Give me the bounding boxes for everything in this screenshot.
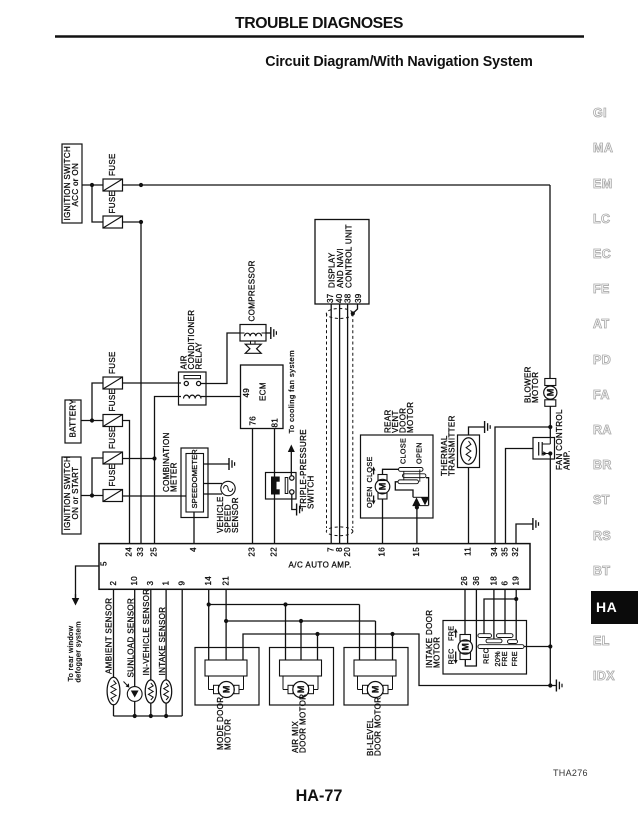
- svg-text:M: M: [461, 643, 471, 651]
- section tab PD: [593, 354, 611, 367]
- ground: speedometer: [229, 458, 235, 470]
- svg-text:25: 25: [150, 547, 159, 557]
- wire: display pin 38 to A/C amp pin 20: [347, 304, 349, 544]
- control unit box: ECM: [241, 365, 284, 429]
- wire: fuse F6 output to speedometer: [123, 495, 187, 497]
- pin 6 label (A/C auto amp bottom): [500, 581, 509, 586]
- wire: ground rail branch to bi-level motor: [392, 634, 394, 660]
- motor box: BI-LEVEL DOOR MOTOR: [344, 648, 408, 757]
- wire: fuse F4 output down to A/C amp pin 24: [123, 421, 130, 544]
- net label: To rear window defogger system: [66, 621, 83, 682]
- pin 7 label (A/C auto amp top): [326, 547, 335, 552]
- svg-text:RELAY: RELAY: [195, 342, 204, 370]
- ground: triple-pressure switch: [297, 504, 303, 516]
- wire: fuse F3 output to air conditioner relay contact: [123, 382, 182, 384]
- wire: riser to A/C amp pin 25: [154, 459, 156, 544]
- junction node fuse F2: [139, 220, 143, 224]
- wire: rear vent motor to position switch: [383, 469, 399, 474]
- wire: ECM pin 81 to A/C amp pin 22 through pressure switch: [274, 429, 276, 544]
- wire: A/C amp pin 6 to intake switch: [504, 589, 506, 634]
- wire: pin 19 branch to REC contact: [484, 599, 516, 634]
- pin 25 label (A/C auto amp top): [150, 547, 159, 557]
- wire: A/C amp pin 32 to ground: [516, 524, 533, 543]
- wire: ambient sensor to sensor common: [113, 705, 115, 716]
- diode pair (rear vent motor): [412, 497, 429, 505]
- wire: A/C amp pin 3 to in-vehicle sensor: [150, 589, 152, 680]
- wire: display pin 39 to cable shield: [353, 304, 358, 314]
- junction node main riser / ground line: [548, 683, 552, 687]
- ground: compressor: [271, 327, 277, 339]
- wire: sunload sensor to sensor common: [134, 701, 136, 716]
- svg-text:ACC or ON: ACC or ON: [71, 163, 80, 207]
- svg-text:16: 16: [378, 547, 387, 557]
- pin 18 label (A/C auto amp bottom): [489, 576, 498, 586]
- svg-text:34: 34: [490, 547, 499, 557]
- pin 4 label (A/C auto amp top): [189, 547, 198, 552]
- page header rule: [55, 35, 584, 37]
- svg-text:35: 35: [501, 547, 510, 557]
- svg-text:FUSE: FUSE: [108, 191, 117, 214]
- svg-text:2: 2: [109, 581, 118, 586]
- wire: speedometer to A/C amp pin 4: [193, 512, 195, 543]
- wire: intake sensor to sensor common: [165, 703, 167, 716]
- svg-text:DOOR MOTOR: DOOR MOTOR: [299, 694, 308, 753]
- compressor: magnet clutch coil: [240, 260, 266, 341]
- svg-text:11: 11: [464, 547, 473, 556]
- svg-text:33: 33: [136, 547, 145, 557]
- control unit box: DISPLAY AND NAVI CONTROL UNIT: [315, 220, 369, 305]
- svg-text:M: M: [222, 686, 232, 694]
- net label: To cooling fan system: [287, 350, 296, 434]
- pin 11 label (A/C auto amp top): [464, 547, 473, 556]
- wire: door motor ground rail: [243, 634, 556, 686]
- svg-text:TRANSMITTER: TRANSMITTER: [448, 415, 457, 476]
- pin 33 label (A/C auto amp top): [136, 547, 145, 557]
- svg-text:26: 26: [460, 576, 469, 586]
- wire: relay contact output to compressor: [201, 333, 240, 384]
- junction nodes on sensor common: [133, 714, 169, 718]
- section tab HA (active): [591, 591, 638, 624]
- svg-text:10: 10: [130, 576, 139, 586]
- svg-text:15: 15: [412, 547, 421, 557]
- wire: pressure switch to cooling fan arrow: [290, 454, 292, 477]
- wire: ACC branch down to second fuse: [92, 185, 103, 222]
- wire: up to air conditioner relay coil: [155, 397, 182, 459]
- section tab EL: [593, 635, 610, 648]
- junction node at ON-START fuse split: [90, 493, 94, 497]
- amplifier box: FAN CONTROL AMP.: [533, 409, 572, 470]
- pin 32 label (A/C auto amp top): [511, 547, 520, 557]
- wire: blower motor feed riser: [549, 185, 551, 379]
- section tab LC: [593, 213, 610, 226]
- pin 36 label (A/C auto amp bottom): [472, 576, 481, 586]
- svg-text:9: 9: [178, 581, 187, 586]
- svg-text:DOOR MOTOR: DOOR MOTOR: [374, 697, 383, 756]
- svg-text:SUNLOAD SENSOR: SUNLOAD SENSOR: [126, 598, 135, 678]
- junction node pin 19 branch: [514, 597, 518, 601]
- pin 35 label (A/C auto amp top): [501, 547, 510, 557]
- svg-text:CLOSE: CLOSE: [399, 438, 408, 464]
- page number HA-77: [0, 787, 638, 806]
- svg-text:IN-VEHICLE SENSOR: IN-VEHICLE SENSOR: [142, 589, 151, 676]
- wire: ECM pin 76 to A/C amp pin 23: [252, 429, 254, 544]
- svg-text:39: 39: [354, 293, 363, 303]
- fuse F6 (meter feed): [103, 464, 123, 502]
- wire: rail branch to air mix motor: [285, 605, 287, 661]
- compressor clutch pulley symbol: [245, 341, 261, 353]
- svg-text:21: 21: [222, 576, 231, 586]
- sensor: AMBIENT SENSOR: [105, 598, 120, 705]
- motor box: INTAKE DOOR MOTOR: [425, 610, 526, 674]
- pin 22 label (A/C auto amp top): [270, 547, 279, 557]
- svg-text:37: 37: [326, 293, 335, 303]
- intake door motor M with REC/FRE arrows: [447, 626, 473, 665]
- svg-text:REC: REC: [482, 648, 491, 664]
- pin 15 label (A/C auto amp top): [412, 547, 421, 557]
- junction node blower/pin34: [548, 425, 552, 429]
- wire: display pin 40 to A/C amp pin 8: [339, 304, 341, 544]
- wire: pressure switch to ground: [292, 494, 297, 509]
- pin 5 label: [99, 561, 108, 566]
- figure number THA276: [553, 768, 588, 778]
- svg-text:defogger system: defogger system: [74, 621, 83, 682]
- title: TROUBLE DIAGNOSES: [0, 15, 638, 33]
- ground: A/C amp pin 32: [533, 518, 539, 530]
- section tab MA: [593, 142, 613, 155]
- shield: dashed screen around navi harness: [326, 309, 353, 536]
- svg-text:FUSE: FUSE: [108, 426, 117, 449]
- svg-text:MOTOR: MOTOR: [531, 372, 540, 403]
- label OPEN CLOSE with arrows (rear vent): [365, 456, 375, 508]
- svg-text:M: M: [378, 483, 388, 491]
- svg-text:METER: METER: [170, 462, 179, 492]
- svg-text:76: 76: [248, 416, 257, 426]
- svg-text:FRE: FRE: [447, 626, 456, 641]
- svg-text:FUSE: FUSE: [108, 389, 117, 412]
- sensor box: THERMAL TRANSMITTER: [440, 415, 479, 476]
- section tab BT: [593, 565, 610, 578]
- ground: thermal transmitter: [485, 421, 491, 433]
- wire: sensor common return line: [114, 715, 183, 717]
- sensor: VEHICLE SPEED SENSOR: [216, 481, 240, 533]
- svg-text:OPEN: OPEN: [415, 442, 424, 464]
- wire: thermal transmitter to ground: [469, 427, 485, 435]
- wire: fan control amp down to main ground line: [549, 459, 551, 686]
- fuse F1 (ACC feed): [103, 153, 123, 191]
- svg-text:SENSOR: SENSOR: [231, 497, 240, 533]
- svg-text:4: 4: [189, 547, 198, 552]
- wire: fuse F2 output: [123, 221, 142, 223]
- motor box: REAR VENT DOOR MOTOR: [361, 402, 434, 518]
- svg-text:38: 38: [344, 293, 353, 303]
- control unit box: A/C AUTO AMP.: [99, 544, 530, 590]
- wire: ground rail branch to air mix motor: [317, 634, 319, 660]
- section tab BR: [593, 459, 612, 472]
- svg-text:FRE: FRE: [500, 651, 509, 666]
- intake position switch contacts: [478, 634, 524, 667]
- svg-text:23: 23: [248, 547, 257, 557]
- svg-text:5: 5: [99, 561, 108, 566]
- wire: A/C amp pin 35 to fan control amp gate: [506, 449, 534, 544]
- wire: relay coil to ECM pin 49: [201, 396, 241, 398]
- power source box: IGNITION SWITCH ACC or ON: [62, 144, 82, 223]
- pin 8 label (A/C auto amp top): [335, 547, 344, 552]
- wire: A/C amp pin 34 to blower motor minus: [495, 427, 549, 543]
- pin 26 label (A/C auto amp bottom): [460, 576, 469, 586]
- rear vent position switch contacts: [398, 438, 426, 484]
- wire: diodes to A/C amp pin 15: [416, 505, 418, 543]
- wire: rail branch to air mix motor (21): [300, 621, 302, 660]
- wire: speedometer to ground: [204, 463, 229, 465]
- wire: intake motor return to A/C amp pin 36: [465, 589, 476, 666]
- junction nodes on pin 21 rail: [224, 619, 303, 623]
- svg-text:3: 3: [146, 581, 155, 586]
- fuse F2 (ACC feed 2): [103, 191, 123, 228]
- svg-text:49: 49: [242, 388, 251, 398]
- wire: A/C amp pin 21 rail to door motors: [226, 589, 375, 660]
- arrow to cooling fan system: [288, 445, 295, 454]
- wire: fuse F1 output to blower motor feed (top horizontal): [123, 184, 551, 186]
- svg-text:SPEEDOMETER: SPEEDOMETER: [190, 449, 199, 509]
- wire: A/C amp pin 2 to ambient sensor: [113, 589, 115, 678]
- wire: A/C amp pin 10 to sunload sensor: [134, 589, 136, 687]
- pin 34 label (A/C auto amp top): [490, 547, 499, 557]
- section tab RA: [593, 424, 612, 437]
- power source box: BATTERY: [65, 399, 81, 443]
- switch box: TRIPLE-PRESSURE SWITCH: [266, 429, 316, 509]
- junction node fuse F1 / pin 33 riser: [139, 183, 143, 187]
- svg-text:COMPRESSOR: COMPRESSOR: [247, 260, 256, 321]
- svg-text:18: 18: [489, 576, 498, 586]
- svg-text:OPEN: OPEN: [365, 486, 374, 508]
- wire: A/C amp pin 14 rail to door motors: [209, 589, 360, 660]
- motor box: AIR MIX DOOR MOTOR: [270, 648, 334, 754]
- pin 16 label (A/C auto amp top): [378, 547, 387, 557]
- fuse F3 (battery feed to A/C relay): [103, 351, 123, 389]
- svg-text:19: 19: [512, 576, 521, 586]
- relay box: AIR CONDITIONER RELAY: [179, 310, 207, 405]
- pin 1 label (A/C auto amp bottom): [162, 581, 171, 586]
- section tab FA: [593, 389, 610, 402]
- section tab RS: [593, 530, 611, 543]
- pin 21 label (A/C auto amp bottom): [222, 576, 231, 586]
- svg-text:A/C AUTO AMP.: A/C AUTO AMP.: [289, 561, 352, 570]
- junction node diode output: [415, 505, 419, 509]
- section tab FE: [593, 283, 610, 296]
- junction node fan amp source: [548, 451, 552, 455]
- wire: ACC switch to fuses: [82, 184, 103, 186]
- svg-text:MOTOR: MOTOR: [406, 402, 415, 433]
- svg-text:INTAKE SENSOR: INTAKE SENSOR: [158, 607, 167, 676]
- wire: intake switch common to main riser: [524, 646, 550, 648]
- svg-text:81: 81: [270, 418, 279, 428]
- pin 24 label (A/C auto amp top): [125, 547, 134, 557]
- wire: A/C amp pin 5 to rear window defogger system: [76, 566, 100, 599]
- wire: riser to A/C amp pin 33: [140, 222, 142, 543]
- svg-text:FUSE: FUSE: [108, 351, 117, 374]
- wire: battery branch up to fuse F3: [92, 383, 103, 421]
- sensor: SUNLOAD SENSOR (photo diode): [124, 598, 143, 701]
- wire: riser segments through fan control amp: [549, 438, 551, 460]
- wire: fuse F5 output: [123, 458, 155, 460]
- pin 9 label (A/C auto amp bottom): [178, 581, 187, 586]
- motor box: MODE DOOR MOTOR: [195, 648, 259, 751]
- svg-text:ECM: ECM: [259, 382, 268, 401]
- wire: compressor to ground stub: [266, 332, 271, 334]
- wire: blower motor to fan control amp: [549, 406, 551, 437]
- svg-text:MOTOR: MOTOR: [224, 719, 233, 750]
- svg-text:1: 1: [162, 581, 171, 586]
- section tab AT: [593, 318, 610, 331]
- blower motor M: [524, 366, 557, 406]
- meter box: COMBINATION METER with SPEEDOMETER: [162, 432, 208, 517]
- junction node main riser / intake switch: [548, 644, 552, 648]
- junction nodes on pin 14 rail: [207, 602, 288, 606]
- rear vent motor M: [375, 475, 390, 500]
- svg-text:20: 20: [343, 547, 352, 557]
- wire: A/C amp pin 18 to intake switch: [493, 589, 495, 639]
- wire: A/C amp pin 26 to intake motor: [464, 589, 466, 635]
- svg-text:FRE: FRE: [510, 651, 519, 666]
- junction node at ACC fuse split: [90, 183, 94, 187]
- wire: display pin 37 to A/C amp pin 7: [330, 304, 332, 544]
- pin 3 label (A/C auto amp bottom): [146, 581, 155, 586]
- section tab EC: [593, 248, 611, 261]
- wire: speedometer to vehicle speed sensor: [204, 484, 223, 495]
- wire: in-vehicle sensor to sensor common: [150, 703, 152, 716]
- svg-text:FUSE: FUSE: [108, 153, 117, 176]
- fuse F4 (battery feed to pin 24): [103, 389, 123, 427]
- svg-text:6: 6: [500, 581, 509, 586]
- section tab EM: [593, 178, 613, 191]
- sensor: INTAKE SENSOR: [158, 607, 172, 703]
- fuse F5 (ignition feed): [103, 426, 123, 464]
- junction node at battery fuse split: [90, 418, 94, 422]
- svg-text:ON or START: ON or START: [71, 467, 80, 520]
- svg-text:SWITCH: SWITCH: [307, 475, 316, 509]
- section tab GI: [593, 107, 607, 120]
- svg-text:AMBIENT SENSOR: AMBIENT SENSOR: [105, 598, 114, 674]
- svg-text:32: 32: [511, 547, 520, 557]
- svg-text:M: M: [296, 686, 306, 694]
- svg-text:REC: REC: [447, 648, 456, 664]
- section tab ST: [593, 494, 610, 507]
- wire: branch up to fuse F5: [92, 458, 103, 496]
- pin 10 label (A/C auto amp bottom): [130, 576, 139, 586]
- pin 20 label (A/C auto amp top): [343, 547, 352, 557]
- junction node pin25/relay coil: [152, 456, 156, 460]
- wire: A/C amp pin 1 to intake sensor: [165, 589, 167, 680]
- wire: battery to fuses: [81, 420, 103, 422]
- junction nodes on ground rail: [315, 632, 394, 636]
- svg-text:BATTERY: BATTERY: [69, 399, 78, 438]
- ground: main body ground: [556, 680, 562, 692]
- svg-text:CONTROL UNIT: CONTROL UNIT: [345, 224, 354, 288]
- pin 14 label (A/C auto amp bottom): [204, 576, 213, 586]
- svg-text:MOTOR: MOTOR: [433, 637, 442, 668]
- sensor: IN-VEHICLE SENSOR: [142, 589, 156, 703]
- svg-text:22: 22: [270, 547, 279, 557]
- pin 2 label (A/C auto amp bottom): [109, 581, 118, 586]
- junction node shield connection: [351, 311, 355, 315]
- wire: A/C amp pin 19 to intake switch: [515, 589, 517, 640]
- svg-text:36: 36: [472, 576, 481, 586]
- svg-text:M: M: [546, 389, 556, 397]
- section tab IDX: [593, 670, 615, 683]
- wire: thermal transmitter to A/C amp pin 11: [468, 468, 470, 544]
- wire: ON-START switch to fuses: [81, 495, 103, 497]
- power source box: IGNITION SWITCH ON or START: [62, 456, 81, 534]
- wire: sensor common to A/C amp pin 9: [181, 589, 183, 716]
- svg-text:M: M: [371, 686, 381, 694]
- arrow to rear window defogger system: [72, 594, 80, 606]
- subtitle: Circuit Diagram/With Navigation System: [80, 54, 638, 70]
- svg-text:24: 24: [125, 547, 134, 557]
- pin 19 label (A/C auto amp bottom): [512, 576, 521, 586]
- wire: rear vent motor to A/C amp pin 16: [382, 499, 384, 543]
- pin 23 label (A/C auto amp top): [248, 547, 257, 557]
- wire: position switch to diodes: [395, 478, 428, 506]
- svg-text:14: 14: [204, 576, 213, 586]
- svg-text:To cooling fan system: To cooling fan system: [287, 350, 296, 434]
- svg-text:AMP.: AMP.: [563, 450, 572, 470]
- svg-text:FUSE: FUSE: [108, 464, 117, 487]
